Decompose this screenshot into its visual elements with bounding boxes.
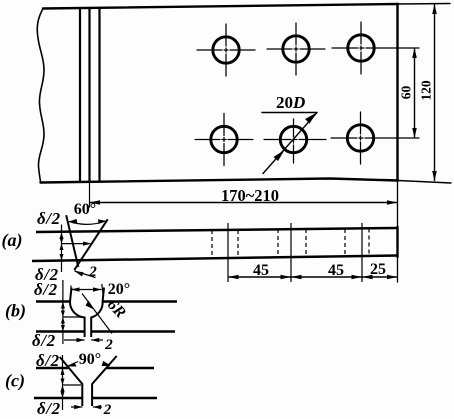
60 dim line xyxy=(414,48,416,138)
(a) right bevel line xyxy=(74,219,107,270)
(c) V-groove left bevel xyxy=(60,357,83,406)
strip a top line xyxy=(36,228,398,232)
60 dim arrows xyxy=(412,48,417,58)
(b) root 2 dim lines xyxy=(64,339,103,341)
hole H1 top-left xyxy=(213,37,239,63)
(a) root face line under 2 xyxy=(75,271,96,278)
hole H5 bottom-middle (20D) xyxy=(280,126,306,152)
H4 centerlines xyxy=(195,139,253,141)
right edge extension down to strip xyxy=(397,180,399,229)
hole H4 bottom-left xyxy=(211,126,237,152)
(b) strip top line xyxy=(36,300,177,303)
joint line 3 xyxy=(98,8,100,181)
svg-text:(b): (b) xyxy=(5,301,26,322)
svg-text:170~210: 170~210 xyxy=(221,186,279,205)
svg-text:25: 25 xyxy=(370,261,386,278)
svg-text:20D: 20D xyxy=(276,93,305,112)
(a) delta dim vertical line xyxy=(61,225,63,273)
170~210 dim arrows xyxy=(90,200,101,205)
svg-text:2: 2 xyxy=(103,402,112,418)
(a) mid-plane leader to root xyxy=(62,243,90,245)
dashed hole lines in strip xyxy=(211,230,213,256)
svg-text:120: 120 xyxy=(419,80,434,101)
svg-text:δ/2: δ/2 xyxy=(36,351,60,370)
svg-text:δ/2: δ/2 xyxy=(34,280,58,299)
(b) strip bottom line xyxy=(36,330,175,333)
svg-text:45: 45 xyxy=(328,262,344,279)
(b) mid-plane line xyxy=(63,316,83,318)
H6 centerlines + extension to 60 dim xyxy=(331,137,419,139)
svg-text:20°: 20° xyxy=(108,281,130,298)
(c) strip bottom line xyxy=(34,397,157,400)
(a) arc arrowheads xyxy=(68,219,78,224)
extension line hole center 2 xyxy=(290,223,292,282)
svg-text:45: 45 xyxy=(253,262,269,279)
(b) U-groove outline xyxy=(70,288,104,338)
(b) 20deg ticks xyxy=(71,284,103,294)
(b) 6R arrowhead xyxy=(86,301,95,310)
(a) 60 deg arc xyxy=(69,221,106,224)
joint line 2 xyxy=(88,8,90,182)
extension line hole center 1 xyxy=(227,223,229,282)
120 dim line xyxy=(434,4,436,181)
(c) root 2 dim lines xyxy=(71,406,102,408)
hole H2 top-middle xyxy=(283,36,309,62)
plate top edge extension xyxy=(398,3,450,6)
(a) left bevel line xyxy=(66,215,78,267)
svg-text:90°: 90° xyxy=(79,351,101,368)
(b) 6R leader xyxy=(82,294,112,334)
(c) V-groove right bevel xyxy=(92,356,117,406)
(c) mid-plane line xyxy=(63,384,82,386)
(a) root 2 leader arrowhead xyxy=(75,271,84,277)
svg-text:(a): (a) xyxy=(2,230,23,251)
(b) 20deg dim line xyxy=(71,289,102,291)
H2 centerlines xyxy=(267,48,325,50)
(c) delta chain arrows xyxy=(61,368,65,375)
joint line 1 xyxy=(79,8,81,181)
170~210 dim line xyxy=(90,202,398,204)
hole H6 bottom-right xyxy=(347,125,373,151)
svg-text:δ/2: δ/2 xyxy=(32,331,56,350)
hole H3 top-right xyxy=(348,35,374,61)
strip a bottom line xyxy=(32,256,398,262)
45/45/25 dim line xyxy=(228,276,398,278)
(b) root 2 arrows xyxy=(77,338,85,342)
(b) 20deg arrows xyxy=(71,287,80,291)
(a) delta chain arrows xyxy=(60,232,64,239)
svg-text:(c): (c) xyxy=(5,371,25,392)
(c) 90deg leader arrows lines xyxy=(68,362,110,367)
plate top edge xyxy=(43,4,398,9)
20D leader arrowhead upper xyxy=(305,113,317,124)
(c) root 2 arrows xyxy=(74,405,82,409)
(b) delta dim vertical xyxy=(62,280,64,344)
(c) delta dim vertical xyxy=(62,355,64,410)
extension line for 170~210 left xyxy=(89,182,91,208)
svg-text:δ/2: δ/2 xyxy=(37,209,61,228)
(a) root leader arrowhead xyxy=(83,242,92,246)
svg-text:60: 60 xyxy=(399,86,414,100)
svg-text:2: 2 xyxy=(104,337,113,353)
plate right edge xyxy=(396,4,398,180)
120 dim arrows xyxy=(432,4,437,14)
wavy break line (left edge of plate) xyxy=(37,9,44,182)
H3 centerlines + extension to 60 dim xyxy=(332,47,419,49)
plate bottom edge extension xyxy=(398,181,451,184)
strip right end edge xyxy=(396,227,398,257)
svg-text:2: 2 xyxy=(88,264,97,280)
svg-text:δ/2: δ/2 xyxy=(37,399,61,418)
svg-text:60°: 60° xyxy=(74,201,96,218)
20D leader shelf xyxy=(262,112,317,114)
H5 centerlines xyxy=(264,139,326,141)
20D leader diagonal xyxy=(263,113,317,174)
extension to 25 dim xyxy=(397,257,399,282)
(c) strip top line xyxy=(36,367,154,370)
dim arrows 45/45/25 xyxy=(228,275,239,279)
plate bottom edge xyxy=(41,179,399,183)
20D leader arrowhead lower (at hole edge) xyxy=(274,150,285,161)
(b) delta chain arrows xyxy=(61,302,65,309)
(c) 90deg arrowheads xyxy=(67,363,77,367)
H1 centerlines xyxy=(197,49,255,51)
extension line hole center 3 xyxy=(361,223,363,282)
